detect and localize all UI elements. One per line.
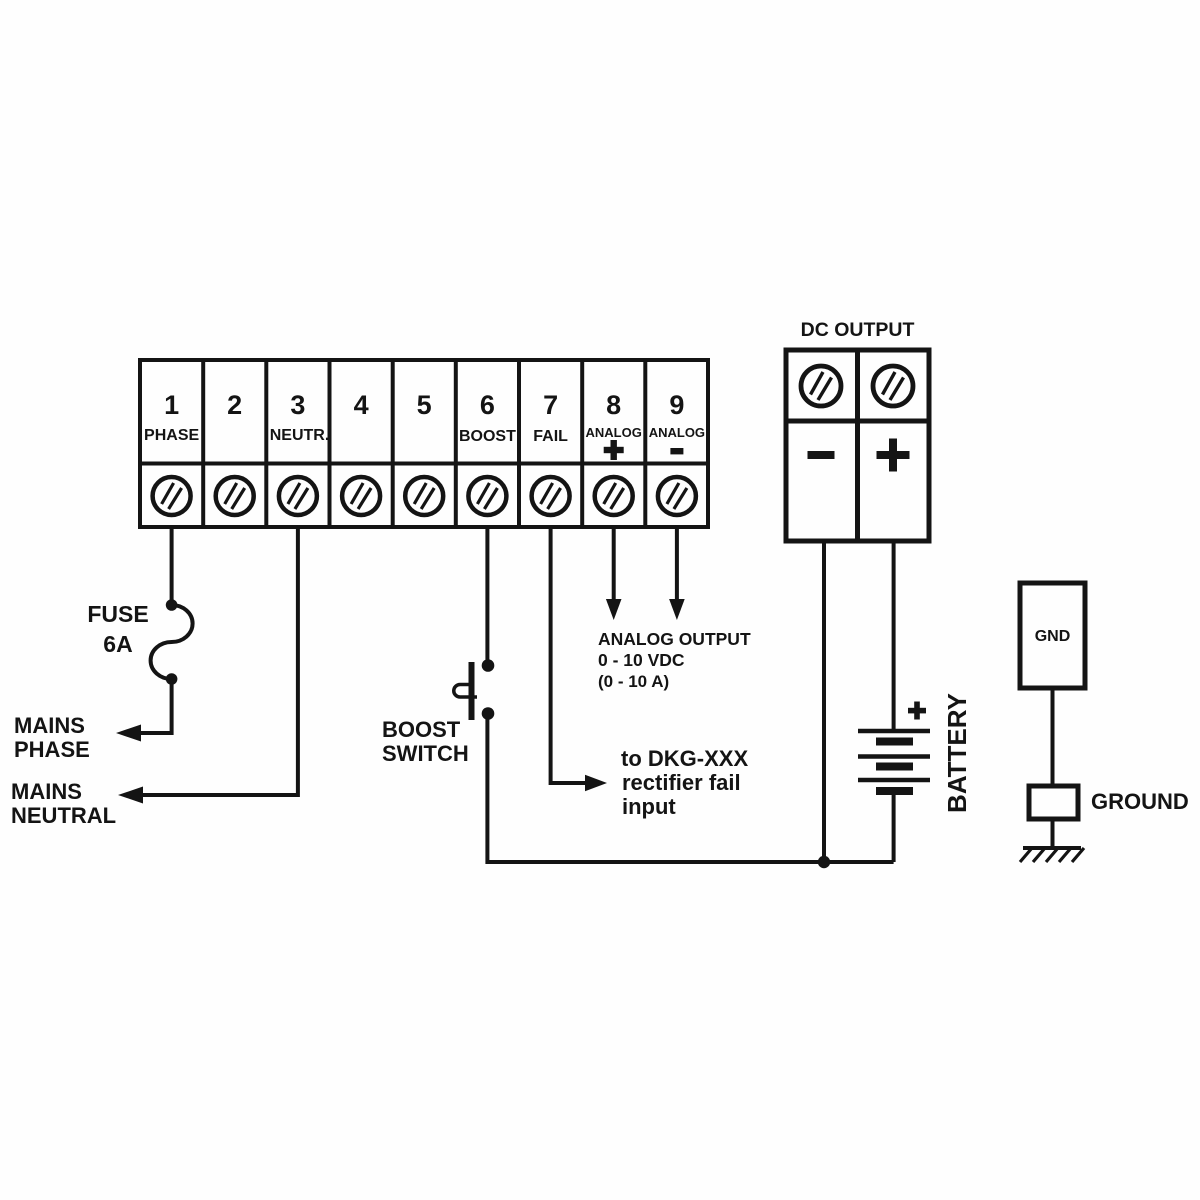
- GND box: [1020, 583, 1085, 688]
- DC output plus sign: [877, 439, 910, 472]
- svg-text:rectifier fail: rectifier fail: [622, 770, 741, 795]
- mains neutral arrowhead: [118, 787, 143, 804]
- terminal 8 plus sign: [604, 440, 624, 460]
- DC output vertical divider: [855, 350, 860, 541]
- svg-text:2: 2: [227, 390, 242, 420]
- boost switch actuator knob: [454, 685, 477, 698]
- terminal screw 8: [595, 477, 633, 515]
- terminal screw 9: [658, 477, 696, 515]
- DC output screw right: [873, 366, 913, 406]
- battery plus sign: [908, 702, 926, 720]
- svg-text:PHASE: PHASE: [14, 737, 90, 762]
- wire terminal 8 to analog plus arrow: [612, 527, 616, 601]
- svg-text:0 - 10 VDC: 0 - 10 VDC: [598, 650, 685, 670]
- mains phase arrowhead: [116, 725, 141, 742]
- terminal block horizontal divider: [140, 462, 708, 466]
- battery plate short 2: [876, 763, 913, 771]
- junction dot minus rail: [818, 856, 830, 868]
- terminal screw 5: [405, 477, 443, 515]
- svg-text:MAINS: MAINS: [11, 779, 82, 804]
- svg-text:4: 4: [354, 390, 369, 420]
- wire battery to bottom rail: [892, 791, 896, 862]
- terminal screw 7: [532, 477, 570, 515]
- boost switch top contact dot: [482, 659, 495, 672]
- terminal screw 1: [153, 477, 191, 515]
- svg-text:FUSE: FUSE: [87, 601, 148, 627]
- battery BT1 plate long 1: [858, 729, 930, 734]
- wire GND to ground electrode: [1051, 688, 1055, 787]
- battery plate short 3: [876, 787, 913, 795]
- wire terminal 7 to fail arrow: [551, 527, 588, 783]
- svg-text:6A: 6A: [103, 631, 132, 657]
- svg-text:7: 7: [543, 390, 558, 420]
- terminal screw 2: [216, 477, 254, 515]
- battery plate long 2: [858, 754, 930, 759]
- battery plate short 1: [876, 738, 913, 746]
- svg-text:5: 5: [417, 390, 432, 420]
- svg-text:input: input: [622, 794, 676, 819]
- svg-text:GROUND: GROUND: [1091, 789, 1189, 814]
- svg-text:(0 - 10 A): (0 - 10 A): [598, 672, 669, 691]
- terminal block outline: [140, 360, 708, 527]
- rectifier fail arrowhead: [585, 775, 607, 791]
- fuse top junction dot: [166, 599, 178, 611]
- wire DC plus to battery: [892, 541, 896, 731]
- wire boost switch to bottom rail: [485, 714, 489, 861]
- svg-text:DC OUTPUT: DC OUTPUT: [801, 319, 915, 341]
- DC output minus sign: [808, 451, 835, 459]
- boost switch bottom contact dot: [482, 707, 495, 720]
- DC output block outline: [786, 350, 929, 541]
- svg-text:PHASE: PHASE: [144, 427, 199, 444]
- bottom rail wire: [485, 860, 893, 864]
- ground electrode box: [1029, 786, 1078, 819]
- svg-text:BOOST: BOOST: [459, 428, 516, 445]
- svg-text:GND: GND: [1035, 628, 1071, 645]
- terminal screw 3: [279, 477, 317, 515]
- terminal screw 4: [342, 477, 380, 515]
- svg-text:ANALOG OUTPUT: ANALOG OUTPUT: [598, 629, 751, 649]
- svg-text:NEUTR.: NEUTR.: [270, 427, 330, 444]
- svg-text:9: 9: [669, 390, 684, 420]
- wire terminal 9 to analog minus arrow: [675, 527, 679, 601]
- svg-text:BOOST: BOOST: [382, 717, 461, 742]
- boost switch bar: [469, 662, 475, 720]
- svg-text:FAIL: FAIL: [533, 428, 568, 445]
- svg-text:1: 1: [164, 390, 179, 420]
- terminal block cell dividers: [203, 360, 645, 527]
- svg-text:MAINS: MAINS: [14, 713, 85, 738]
- svg-text:ANALOG: ANALOG: [586, 425, 642, 440]
- earth ground symbol: [1020, 848, 1084, 862]
- svg-text:8: 8: [606, 390, 621, 420]
- svg-text:BATTERY: BATTERY: [942, 693, 972, 813]
- svg-text:ANALOG: ANALOG: [649, 425, 705, 440]
- wire terminal 3 to mains neutral arrow: [140, 527, 298, 795]
- wire terminal 1 to fuse: [170, 527, 174, 603]
- svg-text:6: 6: [480, 390, 495, 420]
- terminal screw 6: [468, 477, 506, 515]
- DC output horizontal divider: [786, 419, 929, 424]
- wire terminal 6 to boost switch: [485, 527, 489, 662]
- DC output screw left: [801, 366, 841, 406]
- svg-text:to DKG-XXX: to DKG-XXX: [621, 746, 748, 771]
- svg-text:SWITCH: SWITCH: [382, 741, 469, 766]
- fuse F1 S-curve: [151, 605, 193, 679]
- analog plus arrowhead: [606, 599, 622, 620]
- wire fuse to mains phase arrow: [138, 679, 172, 733]
- svg-text:3: 3: [290, 390, 305, 420]
- battery plate long 3: [858, 778, 930, 783]
- wire electrode to earth symbol: [1051, 819, 1055, 848]
- terminal 9 minus sign: [670, 448, 683, 454]
- svg-text:NEUTRAL: NEUTRAL: [11, 803, 116, 828]
- fuse bottom junction dot: [166, 673, 178, 685]
- analog minus arrowhead: [669, 599, 685, 620]
- wire DC minus to bottom rail: [822, 541, 826, 862]
